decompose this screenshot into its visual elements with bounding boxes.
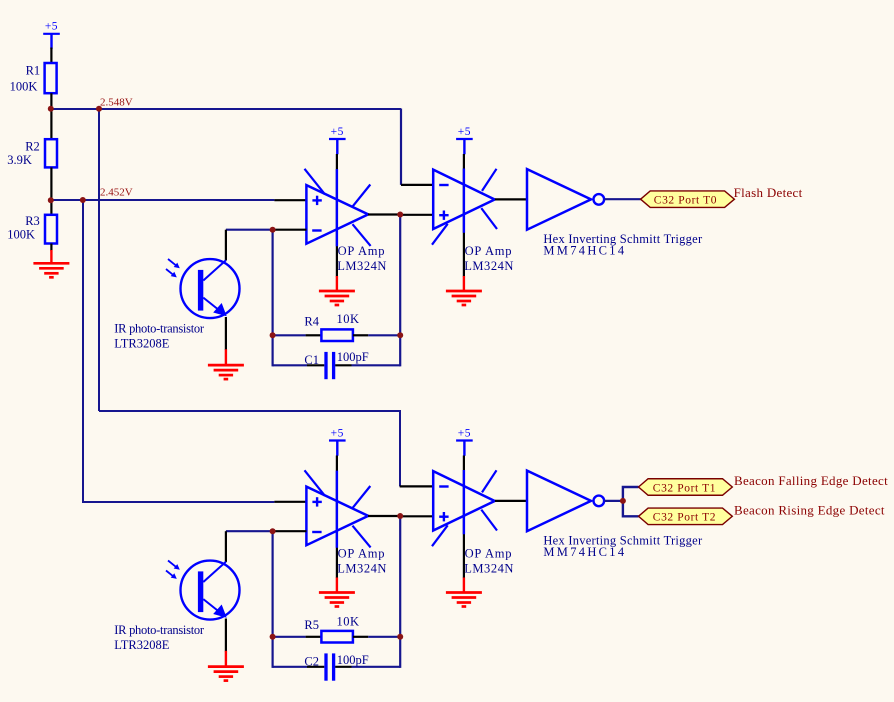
pin U2A inverting input bbox=[273, 530, 307, 532]
ground (U2B) bbox=[446, 593, 482, 607]
svg-text:C1: C1 bbox=[304, 353, 319, 367]
ground (U2A) bbox=[319, 593, 355, 607]
svg-text:R1: R1 bbox=[26, 64, 41, 78]
junction bbox=[96, 106, 102, 112]
op-amp U1B bbox=[432, 169, 514, 274]
svg-text:LTR3208E: LTR3208E bbox=[114, 336, 169, 350]
pin U1A output bbox=[368, 213, 400, 215]
svg-text:R2: R2 bbox=[25, 139, 40, 153]
ground (Q2) bbox=[208, 667, 244, 681]
pin U1B non-inverting input bbox=[400, 214, 433, 216]
resistor R1 bbox=[10, 63, 57, 93]
svg-text:10K: 10K bbox=[337, 615, 360, 629]
pin Q1 collector bbox=[225, 230, 227, 261]
svg-text:Beacon Rising Edge Detect: Beacon Rising Edge Detect bbox=[734, 503, 885, 518]
pin U1A inverting input bbox=[273, 229, 307, 231]
op-amp U2A bbox=[305, 470, 388, 575]
svg-text:OP Amp: OP Amp bbox=[338, 547, 386, 561]
svg-text:2.548V: 2.548V bbox=[100, 96, 133, 108]
svg-text:LM324N: LM324N bbox=[464, 562, 514, 576]
wire to port T1 bbox=[623, 487, 639, 501]
op-amp U1A bbox=[305, 169, 388, 273]
wire feedback right vertical bbox=[399, 215, 401, 367]
junction bbox=[397, 513, 403, 519]
pin U2A non-inverting input bbox=[274, 501, 306, 503]
resistor R3 bbox=[7, 214, 57, 243]
junction bbox=[270, 332, 276, 338]
power +5 (divider top) bbox=[43, 21, 60, 50]
svg-text:LM324N: LM324N bbox=[337, 561, 387, 575]
capacitor C1 bbox=[273, 350, 401, 379]
power +5 (U2A) bbox=[329, 427, 346, 456]
svg-text:C32 Port T1: C32 Port T1 bbox=[653, 482, 716, 494]
wire U3A output to port bbox=[604, 198, 640, 200]
pin U2B non-inverting input bbox=[400, 515, 433, 517]
wire U1B power rail vertical bbox=[463, 154, 465, 277]
wire 2.548V to U2B inverting input bbox=[99, 411, 400, 486]
wire to port T2 bbox=[623, 501, 639, 516]
resistor R4 bbox=[273, 312, 401, 341]
junction bbox=[270, 634, 276, 640]
svg-text:C2: C2 bbox=[304, 654, 319, 668]
wire R3 to ground bbox=[50, 244, 52, 252]
svg-text:100pF: 100pF bbox=[337, 350, 369, 364]
resistor R2 bbox=[7, 139, 57, 167]
pin Q2 collector bbox=[225, 531, 227, 562]
pin U1A non-inverting input bbox=[274, 199, 306, 201]
junction bbox=[48, 106, 54, 112]
junction bbox=[270, 227, 276, 233]
svg-text:C32 Port T0: C32 Port T0 bbox=[654, 195, 717, 207]
junction bbox=[270, 528, 276, 534]
wire inverting input net (ch2) bbox=[226, 530, 273, 532]
svg-text:R4: R4 bbox=[304, 315, 319, 329]
wire U1A power rail vertical bbox=[336, 154, 338, 277]
svg-text:OP Amp: OP Amp bbox=[338, 244, 386, 258]
svg-text:C32 Port T2: C32 Port T2 bbox=[653, 512, 716, 524]
pin Q1 emitter to ground bbox=[225, 317, 227, 350]
wire U3B output bbox=[604, 500, 623, 502]
node 2.548V rail bbox=[50, 96, 401, 109]
wire U2B power rail vertical bbox=[463, 456, 465, 579]
pin U1B output to U3A input bbox=[495, 198, 527, 200]
svg-text:IR photo-transistor: IR photo-transistor bbox=[114, 321, 205, 335]
svg-text:IR photo-transistor: IR photo-transistor bbox=[114, 623, 205, 637]
svg-text:100K: 100K bbox=[10, 79, 38, 93]
ground (U1A) bbox=[319, 291, 355, 305]
node 2.452V rail bbox=[50, 186, 274, 200]
wire 2.548V to U1B inverting input bbox=[400, 109, 402, 185]
power +5 (U2B) bbox=[456, 427, 473, 456]
pin U1B inverting input bbox=[401, 184, 433, 186]
junction bbox=[80, 197, 86, 203]
svg-text:OP Amp: OP Amp bbox=[465, 244, 513, 258]
junction bbox=[48, 197, 54, 203]
pin U2B output to U3B input bbox=[495, 500, 527, 502]
svg-text:Beacon Falling Edge Detect: Beacon Falling Edge Detect bbox=[734, 473, 888, 488]
svg-text:100pF: 100pF bbox=[337, 653, 369, 667]
photo-transistor Q1 bbox=[114, 259, 239, 350]
port C32 Port T1 bbox=[639, 479, 733, 496]
junction bbox=[397, 332, 403, 338]
svg-text:Flash Detect: Flash Detect bbox=[734, 185, 803, 200]
svg-text:10K: 10K bbox=[337, 312, 360, 326]
svg-text:100K: 100K bbox=[7, 228, 35, 242]
pin Q2 emitter to ground bbox=[225, 619, 227, 652]
wire feedback right vertical (ch2) bbox=[399, 516, 401, 668]
wire 2.452V drop to channel 2 bbox=[83, 200, 274, 502]
svg-text:R5: R5 bbox=[304, 618, 319, 632]
svg-text:R3: R3 bbox=[25, 214, 40, 228]
power +5 (U1A) bbox=[329, 126, 346, 155]
svg-text:MM74HC14: MM74HC14 bbox=[543, 244, 626, 258]
photo-transistor Q2 bbox=[114, 561, 239, 652]
wire R1 to R2 bbox=[50, 93, 52, 139]
svg-text:OP Amp: OP Amp bbox=[465, 547, 513, 561]
resistor R5 bbox=[273, 615, 401, 643]
schmitt trigger U3A bbox=[527, 169, 703, 258]
wire feedback left vertical bbox=[272, 230, 274, 367]
svg-text:3.9K: 3.9K bbox=[7, 153, 32, 167]
junction bbox=[397, 212, 403, 218]
schmitt trigger U3B bbox=[527, 471, 703, 560]
wire feedback left vertical (ch2) bbox=[272, 531, 274, 668]
port C32 Port T2 bbox=[639, 508, 733, 525]
port C32 Port T0 bbox=[641, 191, 735, 208]
op-amp U2B bbox=[432, 470, 514, 576]
wire R2 to R3 bbox=[50, 167, 52, 214]
ground (Q1) bbox=[208, 365, 244, 379]
svg-text:2.452V: 2.452V bbox=[100, 186, 133, 198]
junction bbox=[620, 498, 626, 504]
wire inverting input net bbox=[226, 229, 273, 231]
ground (divider) bbox=[33, 263, 69, 277]
capacitor C2 bbox=[273, 653, 401, 680]
svg-text:MM74HC14: MM74HC14 bbox=[543, 545, 626, 559]
svg-text:LM324N: LM324N bbox=[337, 259, 387, 273]
power +5 (U1B) bbox=[456, 126, 473, 155]
wire +5 to R1 bbox=[50, 48, 52, 64]
wire 2.548V drop (left) bbox=[98, 108, 100, 411]
pin U2A output bbox=[368, 515, 400, 517]
svg-text:LTR3208E: LTR3208E bbox=[114, 638, 169, 652]
wire U2A power rail vertical bbox=[336, 456, 338, 579]
junction bbox=[397, 634, 403, 640]
svg-text:LM324N: LM324N bbox=[464, 259, 514, 273]
pin U2B inverting input bbox=[400, 485, 434, 487]
ground (U1B) bbox=[446, 291, 482, 305]
